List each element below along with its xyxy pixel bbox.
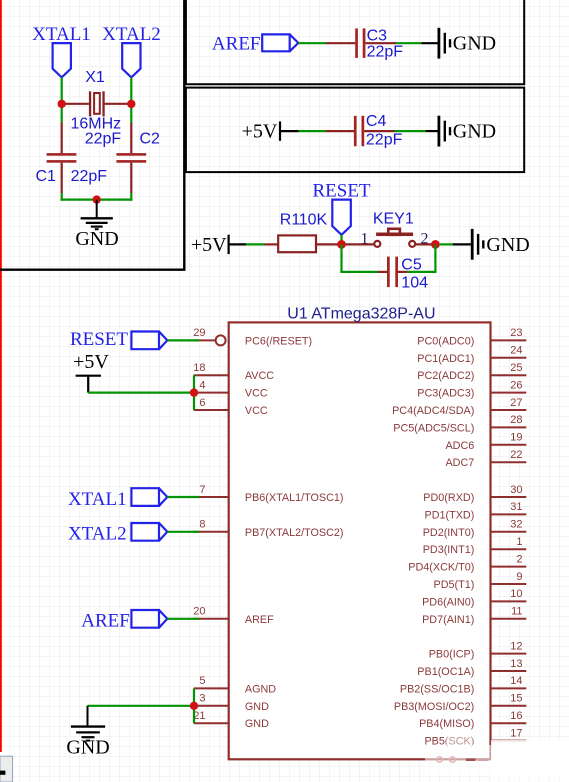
wire C4 to GND xyxy=(395,130,426,132)
wire ground bus xyxy=(61,199,133,201)
svg-text:PB7(XTAL2/TOSC2): PB7(XTAL2/TOSC2) xyxy=(245,527,344,539)
svg-text:27: 27 xyxy=(510,397,522,409)
pin 29 (PC6(/RESET)) left xyxy=(193,327,312,347)
svg-text:AVCC: AVCC xyxy=(245,370,274,382)
resistor R1 xyxy=(265,235,342,252)
svg-text:1: 1 xyxy=(361,231,369,248)
wire GND vertical bus xyxy=(193,688,195,723)
pin 9 (PD5(T1)) right xyxy=(434,571,527,591)
wire node down to C5 xyxy=(340,244,342,273)
svg-text:ADC6: ADC6 xyxy=(445,440,474,452)
wire XTAL2 to pin 8 xyxy=(167,531,199,533)
power +5V (IC supply) xyxy=(73,351,109,393)
wire XTAL2 flag to node B xyxy=(130,77,132,104)
svg-text:PD2(INT0): PD2(INT0) xyxy=(423,527,475,539)
pin 19 (ADC6) right xyxy=(445,432,526,452)
svg-text:GND: GND xyxy=(486,234,529,256)
svg-text:PC6(/RESET): PC6(/RESET) xyxy=(245,335,312,347)
svg-text:22pF: 22pF xyxy=(367,44,404,61)
svg-text:PB0(ICP): PB0(ICP) xyxy=(429,649,475,661)
power ground GND (top) xyxy=(421,28,496,59)
svg-text:AREF: AREF xyxy=(212,34,261,55)
ui fragment (bottom-left corner) xyxy=(0,756,13,782)
svg-text:20: 20 xyxy=(193,606,205,618)
power +5V (reset) xyxy=(191,234,246,256)
svg-text:2: 2 xyxy=(516,553,522,565)
svg-text:25: 25 xyxy=(510,362,522,374)
svg-text:31: 31 xyxy=(510,501,522,513)
power ground GND (reset) xyxy=(453,229,530,260)
pin 20 (AREF) left xyxy=(193,606,274,626)
pin 24 (PC1(ADC1)) right xyxy=(417,345,526,365)
svg-text:28: 28 xyxy=(510,414,522,426)
pin 32 (PD2(INT0)) right xyxy=(423,519,527,539)
svg-text:11: 11 xyxy=(511,606,522,618)
svg-text:PC2(ADC2): PC2(ADC2) xyxy=(417,370,474,382)
section box (crystal circuit) xyxy=(0,0,184,270)
section box (+5V decoupling) xyxy=(186,88,524,173)
wire C1 to ground bus xyxy=(61,193,63,201)
pin 27 (PC4(ADC4/SDA)) right xyxy=(392,397,526,417)
junction ground bus xyxy=(93,195,101,203)
capacitor C3 xyxy=(326,28,396,58)
wire RESET flag to node xyxy=(340,235,342,245)
svg-text:10K: 10K xyxy=(299,212,328,229)
pin 2 (PD4(XCK/T0)) right xyxy=(408,553,526,573)
svg-text:14: 14 xyxy=(510,675,522,687)
pin 7 (PB6(XTAL1/TOSC1)) left xyxy=(194,484,344,504)
junction node (switch/C5/GND) xyxy=(431,240,440,249)
svg-text:PB4(MISO): PB4(MISO) xyxy=(419,718,474,730)
pin 11 (PD7(AIN1)) right xyxy=(422,606,526,626)
wire XTAL1 to pin 7 xyxy=(167,496,199,498)
svg-text:VCC: VCC xyxy=(245,388,268,400)
svg-text:PD6(AIN0): PD6(AIN0) xyxy=(422,596,474,608)
svg-text:PC5(ADC5/SCL): PC5(ADC5/SCL) xyxy=(393,422,474,434)
svg-text:PD7(AIN1): PD7(AIN1) xyxy=(422,614,474,626)
svg-text:XTAL2: XTAL2 xyxy=(68,524,127,545)
svg-text:+5V: +5V xyxy=(73,351,109,373)
pin 5 (AGND) left xyxy=(194,675,277,695)
capacitor C4 xyxy=(326,116,395,146)
svg-text:PB2(SS/OC1B): PB2(SS/OC1B) xyxy=(400,683,474,695)
wire +5V to R1 xyxy=(246,243,265,245)
svg-text:22pF: 22pF xyxy=(85,131,122,148)
svg-text:AREF: AREF xyxy=(81,611,130,632)
svg-text:GND: GND xyxy=(453,32,496,54)
net flag XTAL2 xyxy=(122,43,140,77)
pin 13 (PB1(OC1A)) right xyxy=(417,658,526,678)
svg-text:PD5(T1): PD5(T1) xyxy=(434,579,475,591)
svg-text:104: 104 xyxy=(401,274,428,291)
pin 23 (PC0(ADC0)) right xyxy=(417,327,526,347)
svg-text:23: 23 xyxy=(510,327,522,339)
wire +5V to VCC pins xyxy=(88,392,194,394)
svg-text:GND: GND xyxy=(453,121,496,143)
svg-text:XTAL1: XTAL1 xyxy=(68,489,127,510)
svg-text:PC4(ADC4/SDA): PC4(ADC4/SDA) xyxy=(392,405,474,417)
crystal X1 xyxy=(62,91,132,116)
svg-text:10: 10 xyxy=(510,588,522,600)
svg-text:AGND: AGND xyxy=(245,683,276,695)
wire AREF to C3 xyxy=(298,42,326,44)
pin 3 (GND) left xyxy=(194,693,269,713)
wire node A down to C1 xyxy=(61,104,63,123)
svg-text:13: 13 xyxy=(510,658,522,670)
svg-text:PD3(INT1): PD3(INT1) xyxy=(423,544,475,556)
capacitor C5 xyxy=(378,257,408,288)
wire GND to IC ground pins xyxy=(88,705,195,707)
junction GND bus xyxy=(190,702,198,710)
svg-text:24: 24 xyxy=(510,345,522,357)
ground GND (earth, bottom) xyxy=(71,706,105,741)
svg-text:RESET: RESET xyxy=(312,181,370,202)
svg-text:6: 6 xyxy=(199,397,205,409)
svg-text:17: 17 xyxy=(510,727,522,739)
net flag RESET (points down) xyxy=(332,200,351,235)
power ground GND (middle) xyxy=(426,116,497,147)
pin 26 (PC3(ADC3)) right xyxy=(417,379,526,399)
svg-text:+5V: +5V xyxy=(191,234,227,256)
pin 21 (GND) left xyxy=(193,710,269,730)
svg-text:8: 8 xyxy=(199,519,205,531)
watermark xyxy=(425,735,569,778)
pin 16 (PB4(MISO)) right xyxy=(419,710,526,730)
svg-text:26: 26 xyxy=(510,379,522,391)
svg-text:PC3(ADC3): PC3(ADC3) xyxy=(417,388,474,400)
svg-text:GND: GND xyxy=(75,228,118,250)
svg-text:PB6(XTAL1/TOSC1): PB6(XTAL1/TOSC1) xyxy=(245,492,344,504)
junction reset node xyxy=(337,240,346,249)
pin 17 (PB5(SCK)) right xyxy=(424,727,526,747)
svg-text:PC0(ADC0): PC0(ADC0) xyxy=(417,335,474,347)
svg-text:4: 4 xyxy=(199,379,205,391)
net flag XTAL1 xyxy=(53,43,71,77)
svg-text:C1: C1 xyxy=(36,168,57,185)
svg-text:19: 19 xyxy=(510,432,522,444)
IC U1 ATmega328P-AU xyxy=(229,322,491,759)
svg-text:PB1(OC1A): PB1(OC1A) xyxy=(417,666,474,678)
svg-text:PD1(TXD): PD1(TXD) xyxy=(425,509,475,521)
svg-text:18: 18 xyxy=(193,362,205,374)
wire +5V to C4 xyxy=(299,130,327,132)
svg-text:12: 12 xyxy=(510,640,522,652)
svg-text:AREF: AREF xyxy=(245,614,274,626)
pin 22 (ADC7) right xyxy=(445,449,526,469)
svg-text:29: 29 xyxy=(193,327,205,339)
wire node to switch pin 1 xyxy=(346,243,374,245)
svg-text:3: 3 xyxy=(199,693,205,705)
svg-text:9: 9 xyxy=(516,571,522,583)
svg-text:32: 32 xyxy=(510,519,522,531)
ground GND (earth) xyxy=(81,200,113,230)
svg-text:R1: R1 xyxy=(280,212,301,229)
wire C2 to ground bus xyxy=(130,193,132,201)
svg-text:XTAL1: XTAL1 xyxy=(32,24,91,45)
svg-text:PC1(ADC1): PC1(ADC1) xyxy=(417,353,474,365)
svg-text:7: 7 xyxy=(199,484,205,496)
pin 28 (PC5(ADC5/SCL)) right xyxy=(393,414,526,434)
svg-text:22: 22 xyxy=(510,449,522,461)
wire switch pin 2 to node xyxy=(416,243,435,245)
svg-text:22pF: 22pF xyxy=(366,132,403,149)
pin 8 (PB7(XTAL2/TOSC2)) left xyxy=(194,519,344,539)
section box (AREF decoupling) xyxy=(186,0,524,84)
pin 18 (AVCC) left xyxy=(193,362,274,382)
junction node A xyxy=(58,100,66,108)
junction node B xyxy=(127,100,135,108)
wire AREF to pin 20 xyxy=(167,618,199,620)
pin 30 (PD0(RXD)) right xyxy=(423,484,526,504)
wire XTAL1 flag to node A xyxy=(61,77,63,104)
pin 10 (PD6(AIN0)) right xyxy=(422,588,526,608)
pin 6 (VCC) left xyxy=(194,397,268,417)
pin 1 (PD3(INT1)) right xyxy=(423,536,527,556)
svg-text:5: 5 xyxy=(199,675,205,687)
wire VCC vertical bus xyxy=(193,375,195,410)
pin 4 (VCC) left xyxy=(194,379,268,399)
pin 31 (PD1(TXD)) right xyxy=(425,501,527,521)
svg-text:X1: X1 xyxy=(85,69,105,86)
svg-text:PB3(MOSI/OC2): PB3(MOSI/OC2) xyxy=(394,701,474,713)
wire node to GND xyxy=(440,243,453,245)
svg-text:C4: C4 xyxy=(366,113,387,130)
pin 15 (PB3(MOSI/OC2)) right xyxy=(394,693,526,713)
capacitor C2 xyxy=(116,123,146,194)
svg-text:PD4(XCK/T0): PD4(XCK/T0) xyxy=(408,562,474,574)
svg-text:+5V: +5V xyxy=(242,121,278,143)
svg-text:GND: GND xyxy=(66,737,109,759)
pin 14 (PB2(SS/OC1B)) right xyxy=(400,675,526,695)
svg-text:15: 15 xyxy=(510,693,522,705)
svg-text:C3: C3 xyxy=(367,28,388,45)
svg-text:1: 1 xyxy=(516,536,522,548)
svg-text:RESET: RESET xyxy=(70,329,128,350)
junction VCC xyxy=(190,388,198,396)
wire C5 back up to node xyxy=(408,271,437,273)
svg-text:22pF: 22pF xyxy=(71,168,108,185)
wire node B down to C2 xyxy=(130,104,132,123)
svg-text:U1 ATmega328P-AU: U1 ATmega328P-AU xyxy=(287,306,435,323)
switch KEY1 xyxy=(374,229,415,247)
svg-text:30: 30 xyxy=(510,484,522,496)
svg-text:XTAL2: XTAL2 xyxy=(102,24,161,45)
svg-text:GND: GND xyxy=(245,718,269,730)
wire RESET flag to pin 29 xyxy=(167,339,199,341)
svg-text:ADC7: ADC7 xyxy=(445,457,474,469)
capacitor C1 xyxy=(47,123,77,194)
svg-text:C2: C2 xyxy=(140,131,161,148)
power +5V (middle) xyxy=(242,121,299,143)
svg-text:VCC: VCC xyxy=(245,405,268,417)
svg-text:GND: GND xyxy=(245,701,269,713)
pin 25 (PC2(ADC2)) right xyxy=(417,362,526,382)
svg-text:PD0(RXD): PD0(RXD) xyxy=(423,492,474,504)
svg-text:KEY1: KEY1 xyxy=(373,211,414,228)
pin 12 (PB0(ICP)) right xyxy=(429,640,527,660)
svg-text:16: 16 xyxy=(510,710,522,722)
wire C3 to GND xyxy=(396,42,421,44)
